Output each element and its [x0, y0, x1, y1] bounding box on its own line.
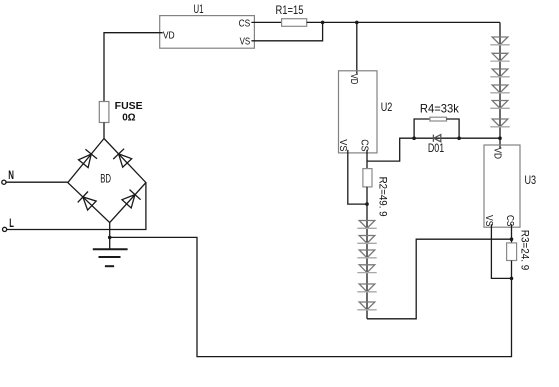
- svg-text:N: N: [8, 168, 14, 182]
- wire R4 right lead: [447, 119, 460, 138]
- wire R1 to top rail: [307, 21, 500, 23]
- wire LED string 1: [499, 22, 501, 148]
- wire U2.VS to LED string 2 top: [348, 150, 367, 204]
- wire U3.CS to R3: [511, 224, 513, 243]
- node R3 top junction: [510, 237, 514, 241]
- wire ground node to bottom rail: [110, 237, 512, 356]
- wire D01 to LED string 1: [459, 137, 500, 139]
- node R3 bottom junction: [510, 277, 514, 281]
- wire fuse to bridge top: [103, 123, 105, 139]
- wire U1.VD to fuse: [104, 33, 163, 102]
- svg-text:CS: CS: [239, 18, 251, 30]
- diode BD bottom-left: [78, 192, 97, 211]
- terminal N: [2, 180, 6, 184]
- wire R4 branch: [414, 119, 430, 138]
- svg-text:BD: BD: [100, 172, 111, 186]
- diode BD top-right: [113, 149, 132, 168]
- fuse FUSE 0ohm body: [99, 102, 109, 123]
- node D01 left: [412, 136, 416, 140]
- svg-text:VD: VD: [163, 30, 175, 42]
- svg-text:CS: CS: [504, 215, 516, 226]
- wire LED string 2: [366, 204, 368, 319]
- node R2/LED junction: [365, 202, 369, 206]
- node A (U1 VS/CS tie): [321, 21, 325, 25]
- diode BD top-left: [79, 149, 98, 167]
- wire D01 anode line: [414, 137, 459, 139]
- IC U3 (LED driver box): [484, 145, 520, 227]
- svg-text:U3: U3: [525, 173, 537, 187]
- node LED1/U3.VD junction: [498, 136, 502, 140]
- node B (U2 VD tap): [355, 21, 359, 25]
- wire U2.CS to D01 left node: [367, 138, 414, 161]
- svg-text:D01: D01: [428, 141, 445, 155]
- svg-text:L: L: [9, 216, 14, 230]
- svg-text:0Ω: 0Ω: [122, 112, 135, 123]
- svg-text:VD: VD: [491, 148, 503, 160]
- svg-text:VD: VD: [348, 74, 360, 85]
- svg-text:VS: VS: [240, 36, 251, 48]
- wire N to bridge left: [6, 181, 68, 183]
- wire U3.VS down to R3 bottom: [491, 224, 511, 278]
- resistor R3 body: [507, 243, 517, 261]
- wire L to bridge right: [7, 183, 146, 230]
- svg-text:CS: CS: [359, 139, 371, 151]
- svg-text:U2: U2: [381, 100, 393, 114]
- node D01 right: [457, 136, 461, 140]
- diode D01: [433, 135, 440, 142]
- svg-text:VS: VS: [337, 139, 349, 151]
- wire R3 to junction: [511, 261, 513, 279]
- svg-text:VS: VS: [483, 215, 495, 226]
- wire R2 to LED string 2: [366, 187, 368, 204]
- wire top rail to U2.VD: [356, 22, 358, 73]
- wire U1.VS feedback: [251, 22, 322, 40]
- wire LED string 2 bottom to R3 top junction: [367, 239, 512, 319]
- LED string 1 diodes: [490, 37, 509, 127]
- wire bridge bottom to ground node: [109, 223, 111, 250]
- node ground junction: [108, 236, 112, 240]
- resistor R4 body: [430, 117, 447, 121]
- svg-text:R4=33k: R4=33k: [420, 101, 460, 115]
- svg-text:U1: U1: [193, 2, 203, 16]
- resistor R2 body: [363, 169, 372, 187]
- bridge rectifier BD outline: [68, 139, 146, 223]
- IC U1 (LED driver box): [160, 16, 255, 49]
- diode BD bottom-right: [122, 190, 141, 208]
- svg-text:FUSE: FUSE: [115, 101, 143, 112]
- LED string 2 diodes: [357, 221, 376, 310]
- wire U2.CS down: [366, 150, 368, 169]
- svg-text:R2=49. 9: R2=49. 9: [376, 177, 388, 217]
- resistor R1 body: [282, 19, 307, 27]
- IC U2 (LED driver box): [339, 71, 378, 153]
- wire U1.CS to R1: [251, 21, 281, 23]
- terminal L: [3, 227, 7, 231]
- svg-text:R1=15: R1=15: [276, 3, 304, 17]
- svg-text:R3=24. 9: R3=24. 9: [518, 230, 530, 270]
- ground: [93, 249, 128, 266]
